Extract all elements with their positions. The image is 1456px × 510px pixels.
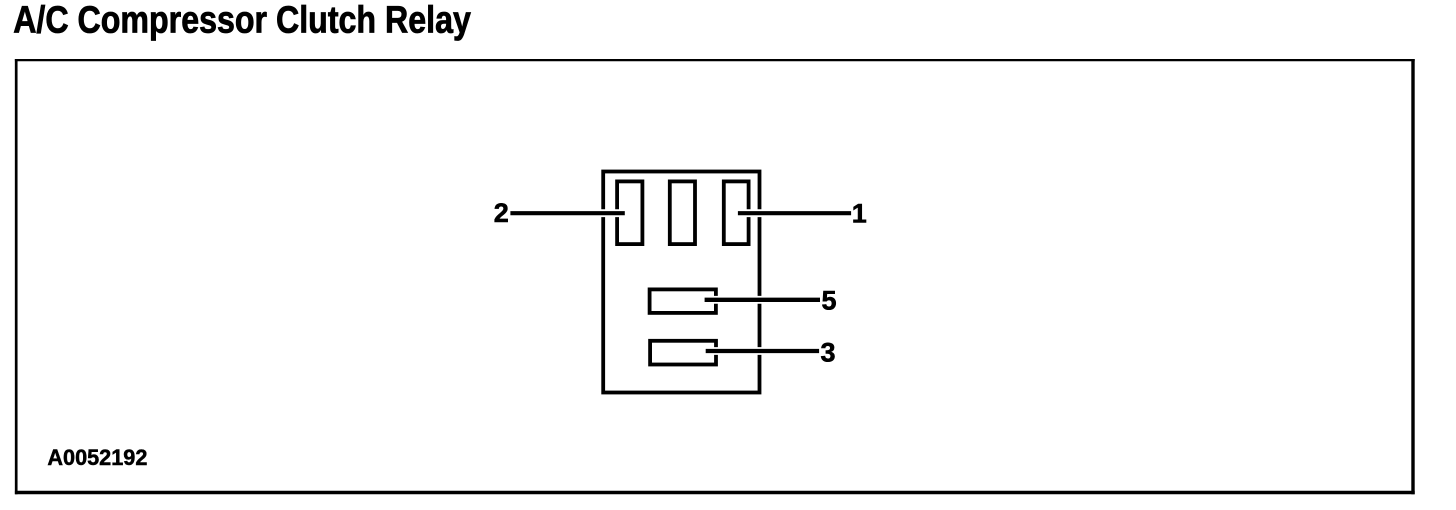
leader wire pin 1 xyxy=(738,211,851,215)
leader wire gap halo for pin 5 xyxy=(704,296,821,304)
svg-text:5: 5 xyxy=(821,285,836,315)
svg-text:3: 3 xyxy=(820,337,835,367)
leader wire pin 5 xyxy=(705,298,820,302)
svg-text:2: 2 xyxy=(494,198,509,228)
terminal cavity pin 2 (left vertical slot) xyxy=(617,181,642,244)
leader wire pin 3 xyxy=(706,349,819,353)
terminal cavity pin 1 (right vertical slot) xyxy=(724,181,749,244)
terminal cavity pin 5 (upper horizontal slot) xyxy=(650,289,716,313)
svg-text:1: 1 xyxy=(852,198,867,228)
leader wire gap halo for pin 1 xyxy=(737,209,852,217)
leader wire gap halo for pin 2 xyxy=(509,209,626,217)
svg-text:A0052192: A0052192 xyxy=(47,445,147,470)
terminal cavity pin 3 (lower horizontal slot) xyxy=(650,341,716,365)
terminal cavity (middle vertical slot, unnumbered) xyxy=(670,181,695,244)
svg-text:A/C Compressor Clutch Relay: A/C Compressor Clutch Relay xyxy=(13,0,471,41)
leader wire pin 2 xyxy=(510,211,624,215)
relay connector body outline xyxy=(603,172,759,393)
leader wire gap halo for pin 3 xyxy=(705,347,820,355)
